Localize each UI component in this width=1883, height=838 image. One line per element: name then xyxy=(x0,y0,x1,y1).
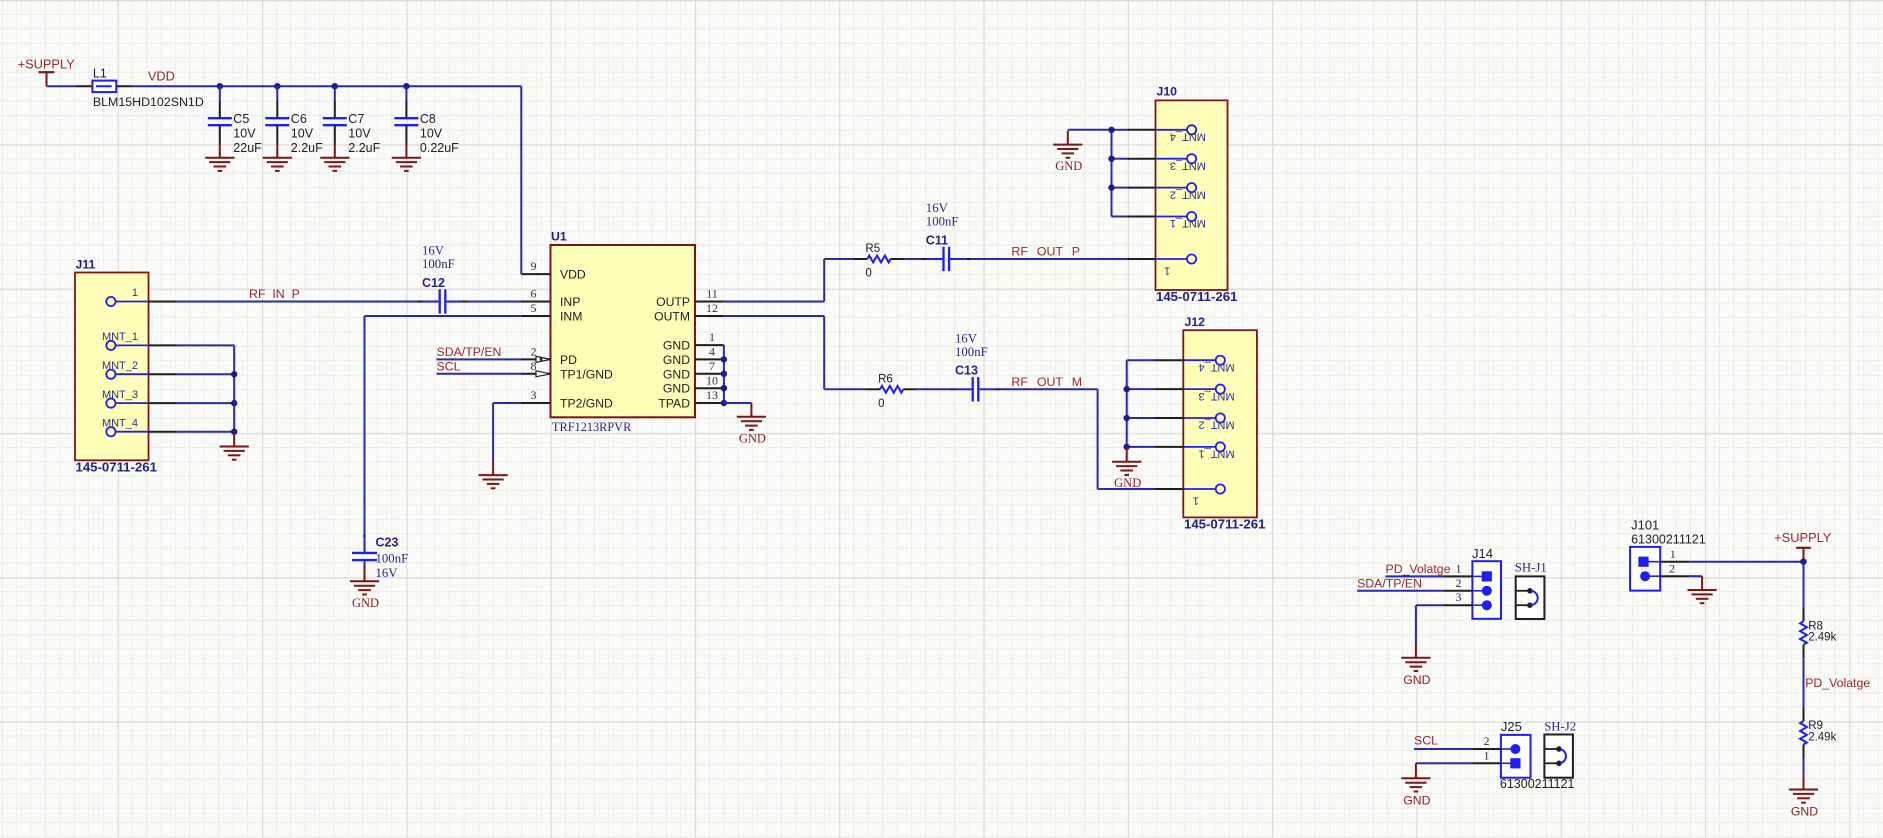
svg-text:100nF: 100nF xyxy=(926,215,959,229)
svg-text:C13: C13 xyxy=(955,364,978,378)
svg-text:J11: J11 xyxy=(76,258,96,272)
svg-text:1: 1 xyxy=(1484,748,1490,762)
svg-text:GND: GND xyxy=(663,382,690,396)
svg-text:5: 5 xyxy=(531,301,537,315)
svg-text:PD: PD xyxy=(560,353,577,367)
svg-text:100nF: 100nF xyxy=(376,551,409,565)
svg-text:9: 9 xyxy=(531,259,537,273)
svg-text:J101: J101 xyxy=(1631,517,1659,532)
svg-text:MNT_3: MNT_3 xyxy=(102,389,138,401)
svg-text:11: 11 xyxy=(706,287,718,301)
svg-text:MNT_3: MNT_3 xyxy=(1170,159,1206,171)
svg-text:13: 13 xyxy=(706,388,718,402)
svg-text:J25: J25 xyxy=(1501,719,1522,734)
svg-text:MNT_1: MNT_1 xyxy=(1199,448,1235,460)
svg-text:GND: GND xyxy=(1791,805,1818,819)
svg-text:10V: 10V xyxy=(420,127,443,141)
svg-text:MNT_2: MNT_2 xyxy=(102,360,138,372)
svg-text:GND: GND xyxy=(663,339,690,353)
svg-text:7: 7 xyxy=(709,359,715,373)
svg-text:MNT_3: MNT_3 xyxy=(1199,390,1235,402)
svg-text:R5: R5 xyxy=(865,243,880,255)
svg-text:GND: GND xyxy=(1055,159,1082,173)
svg-text:100nF: 100nF xyxy=(422,257,455,271)
svg-text:SCL: SCL xyxy=(437,359,461,373)
svg-text:PD_Volatge: PD_Volatge xyxy=(1805,676,1870,690)
svg-text:1: 1 xyxy=(709,330,715,344)
svg-text:1: 1 xyxy=(1670,547,1676,561)
svg-text:61300211121: 61300211121 xyxy=(1500,777,1575,791)
svg-text:1: 1 xyxy=(1193,494,1199,506)
svg-text:OUTP: OUTP xyxy=(656,295,690,309)
svg-text:L1: L1 xyxy=(93,67,107,81)
svg-text:GND: GND xyxy=(1403,793,1430,807)
svg-text:TP1/GND: TP1/GND xyxy=(560,367,613,381)
svg-text:SDA/TP/EN: SDA/TP/EN xyxy=(437,345,502,359)
svg-text:16V: 16V xyxy=(955,331,978,345)
svg-text:C23: C23 xyxy=(376,535,399,549)
svg-text:TP2/GND: TP2/GND xyxy=(560,397,613,411)
svg-text:C7: C7 xyxy=(348,112,364,126)
svg-text:145-0711-261: 145-0711-261 xyxy=(1184,517,1265,532)
svg-text:1: 1 xyxy=(1164,264,1170,276)
svg-text:J14: J14 xyxy=(1472,546,1493,561)
svg-text:MNT_2: MNT_2 xyxy=(1170,188,1206,200)
svg-text:SDA/TP/EN: SDA/TP/EN xyxy=(1357,576,1422,590)
svg-text:12: 12 xyxy=(706,301,718,315)
svg-text:2.2uF: 2.2uF xyxy=(291,141,323,155)
svg-text:GND: GND xyxy=(1114,476,1141,490)
svg-text:16V: 16V xyxy=(376,566,399,580)
svg-text:0: 0 xyxy=(865,268,871,280)
svg-text:INM: INM xyxy=(560,310,582,324)
svg-text:61300211121: 61300211121 xyxy=(1631,533,1706,547)
svg-text:GND: GND xyxy=(739,431,766,445)
svg-text:GND: GND xyxy=(1403,673,1430,687)
svg-text:TPAD: TPAD xyxy=(658,397,690,411)
svg-text:0.22uF: 0.22uF xyxy=(420,141,459,155)
svg-text:J10: J10 xyxy=(1157,85,1178,99)
svg-text:2: 2 xyxy=(1484,734,1490,748)
svg-text:10V: 10V xyxy=(348,127,371,141)
svg-text:C11: C11 xyxy=(926,233,948,247)
svg-text:1: 1 xyxy=(1456,561,1462,575)
svg-text:RF IN P: RF IN P xyxy=(249,287,300,301)
svg-text:RF OUT P: RF OUT P xyxy=(1011,244,1080,258)
svg-text:2: 2 xyxy=(1669,562,1675,576)
svg-text:C5: C5 xyxy=(233,112,249,126)
svg-text:3: 3 xyxy=(531,388,537,402)
svg-text:INP: INP xyxy=(560,295,580,309)
svg-text:1: 1 xyxy=(132,287,138,299)
svg-text:GND: GND xyxy=(663,367,690,381)
svg-text:RF OUT M: RF OUT M xyxy=(1011,375,1082,389)
svg-text:MNT_2: MNT_2 xyxy=(1199,419,1235,431)
svg-text:MNT_4: MNT_4 xyxy=(102,417,138,429)
svg-text:C12: C12 xyxy=(422,276,445,290)
svg-text:2: 2 xyxy=(1456,576,1462,590)
svg-text:PD_Volatge: PD_Volatge xyxy=(1386,562,1451,576)
svg-text:VDD: VDD xyxy=(148,68,175,83)
svg-text:2.49k: 2.49k xyxy=(1808,632,1836,644)
svg-text:OUTM: OUTM xyxy=(654,310,690,324)
svg-text:J12: J12 xyxy=(1185,315,1206,329)
svg-text:U1: U1 xyxy=(551,230,567,244)
svg-text:SCL: SCL xyxy=(1414,734,1438,748)
svg-text:MNT_4: MNT_4 xyxy=(1199,361,1235,373)
svg-text:TRF1213RPVR: TRF1213RPVR xyxy=(552,420,632,434)
svg-text:0: 0 xyxy=(878,398,884,410)
svg-text:GND: GND xyxy=(352,596,379,610)
svg-text:R6: R6 xyxy=(878,373,893,385)
svg-text:10: 10 xyxy=(706,373,718,387)
svg-text:10V: 10V xyxy=(233,127,256,141)
svg-text:+SUPPLY: +SUPPLY xyxy=(1774,530,1831,545)
svg-text:C8: C8 xyxy=(420,112,436,126)
svg-text:C6: C6 xyxy=(291,112,307,126)
svg-text:MNT_4: MNT_4 xyxy=(1170,131,1206,143)
svg-text:145-0711-261: 145-0711-261 xyxy=(76,460,157,475)
svg-text:145-0711-261: 145-0711-261 xyxy=(1156,289,1237,304)
svg-text:VDD: VDD xyxy=(560,268,586,282)
svg-text:100nF: 100nF xyxy=(955,345,988,359)
svg-text:22uF: 22uF xyxy=(233,141,262,155)
svg-text:16V: 16V xyxy=(926,201,949,215)
svg-text:2.2uF: 2.2uF xyxy=(348,141,380,155)
svg-text:6: 6 xyxy=(531,287,537,301)
svg-text:BLM15HD102SN1D: BLM15HD102SN1D xyxy=(93,95,204,109)
svg-text:SH-J2: SH-J2 xyxy=(1544,719,1576,733)
svg-text:4: 4 xyxy=(709,345,715,359)
svg-text:3: 3 xyxy=(1456,590,1462,604)
svg-text:MNT_1: MNT_1 xyxy=(102,331,138,343)
svg-text:MNT_1: MNT_1 xyxy=(1170,217,1206,229)
svg-text:+SUPPLY: +SUPPLY xyxy=(18,57,75,72)
svg-text:10V: 10V xyxy=(291,127,314,141)
svg-text:SH-J1: SH-J1 xyxy=(1515,561,1547,575)
svg-text:GND: GND xyxy=(663,353,690,367)
svg-text:16V: 16V xyxy=(422,244,445,258)
svg-text:2.49k: 2.49k xyxy=(1808,731,1836,743)
